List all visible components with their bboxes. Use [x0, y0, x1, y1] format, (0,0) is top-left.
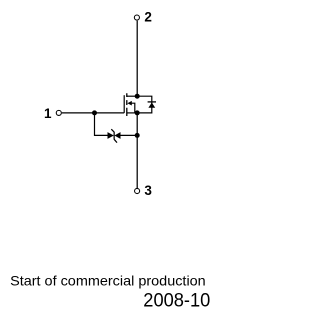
junction drain node [135, 94, 140, 99]
svg-text:Start of commercial production: Start of commercial production [10, 273, 206, 289]
svg-text:2: 2 [144, 10, 152, 25]
wire gate pin1 to gate bar [62, 112, 124, 114]
junction source node [135, 110, 140, 115]
body diode triangle [148, 103, 155, 108]
svg-text:1: 1 [44, 106, 52, 121]
mosfet Q1 body wire [131, 103, 135, 113]
zener protection diode right triangle [114, 132, 120, 139]
body diode cathode bar [148, 101, 156, 103]
wire source stub [127, 112, 137, 114]
wire source node to pin 3 [136, 113, 138, 188]
zener protection diode left triangle [108, 132, 114, 139]
zener protection diode center bar with ticks [111, 129, 117, 142]
mosfet Q1 gate bar [123, 95, 125, 113]
wire pin2 to drain node [136, 21, 138, 97]
wire gate branch down to zener [95, 113, 108, 135]
terminal pin 2 [134, 15, 139, 20]
body diode branch wires [137, 96, 152, 113]
mosfet Q1 channel segments [126, 93, 128, 116]
svg-text:2008-10: 2008-10 [143, 290, 210, 311]
wire zener to trunk [120, 134, 137, 136]
terminal pin 1 [56, 110, 61, 115]
svg-text:3: 3 [144, 183, 152, 198]
junction zener node [135, 133, 140, 138]
wire drain stub [127, 95, 137, 97]
junction gate node [92, 110, 97, 115]
terminal pin 3 [135, 188, 140, 193]
mosfet Q1 body arrow [127, 101, 131, 106]
